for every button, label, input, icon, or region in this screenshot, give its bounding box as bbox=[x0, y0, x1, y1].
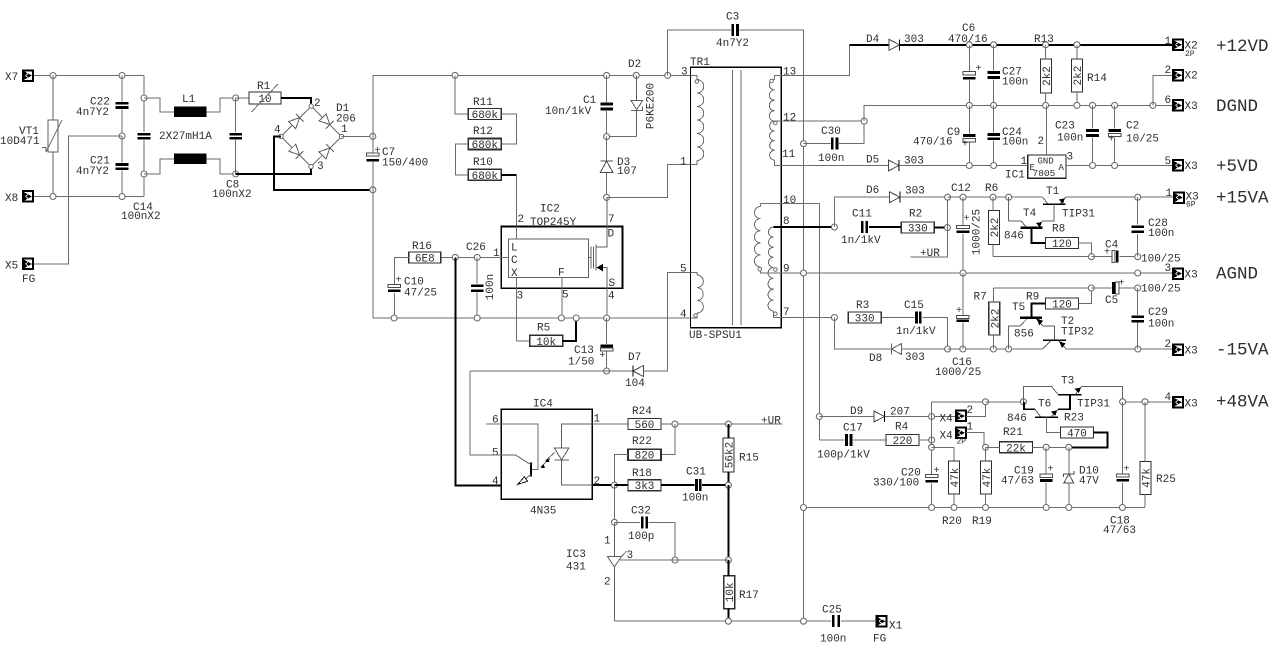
svg-text:100n: 100n bbox=[1057, 133, 1083, 145]
capacitor C18 bbox=[1116, 465, 1129, 482]
junction VT1 bottom bbox=[50, 194, 56, 200]
svg-text:C30: C30 bbox=[821, 126, 841, 138]
connector X4 pin1 bbox=[956, 428, 966, 439]
svg-text:2k2: 2k2 bbox=[1073, 66, 1085, 86]
optocoupler IC4 phototransistor bbox=[501, 455, 531, 485]
wire +UR stub bbox=[911, 228, 948, 257]
wire TR1 pin12 stub bbox=[775, 120, 782, 122]
bridge rectifier D1 edge 4-3 bbox=[281, 136, 311, 166]
wire L1 top out bbox=[207, 98, 236, 112]
wire R21 right bbox=[1033, 446, 1069, 448]
svg-text:4: 4 bbox=[608, 291, 615, 303]
svg-text:47V: 47V bbox=[1079, 476, 1099, 488]
wire TR1 pin10 line bbox=[761, 203, 820, 205]
wire C17 branch bbox=[819, 439, 844, 441]
resistor R7 bbox=[974, 292, 1003, 336]
wire L1 bottom out bbox=[207, 159, 236, 174]
svg-text:R2: R2 bbox=[909, 209, 922, 221]
ic IC1 pin2 lead bbox=[1046, 105, 1048, 155]
svg-text:100nX2: 100nX2 bbox=[212, 189, 252, 201]
wire TR1 pin9 stub a bbox=[761, 267, 782, 273]
junction R13 top bbox=[1043, 42, 1049, 48]
wire L pin vertical bbox=[515, 175, 517, 239]
transistor T5 base lead bbox=[1032, 304, 1046, 318]
capacitor C10 bbox=[388, 276, 401, 293]
capacitor C19 leads bbox=[1045, 447, 1047, 474]
junction C30 left bbox=[801, 141, 807, 147]
wire node1 to C7 bbox=[342, 135, 373, 137]
ic IC2 pin X lead bbox=[516, 278, 518, 341]
diode D1c bbox=[288, 144, 303, 159]
wire D7 to TR1 pin5 bbox=[643, 273, 690, 372]
ic IC2 pin2 lead bbox=[515, 226, 517, 238]
wire TR1 pin7 stub bbox=[774, 311, 782, 318]
wire FG branch bbox=[33, 136, 123, 264]
svg-text:47k: 47k bbox=[950, 467, 962, 487]
wire C20 bottom bbox=[931, 484, 933, 508]
wire C15 right bbox=[922, 318, 947, 350]
svg-text:2X27mH1A: 2X27mH1A bbox=[159, 131, 212, 143]
resistor R17 bbox=[724, 576, 759, 609]
capacitor C16 leads bbox=[962, 273, 964, 315]
optocoupler IC4 base internal bbox=[501, 424, 538, 470]
svg-text:107: 107 bbox=[617, 166, 637, 178]
svg-text:3: 3 bbox=[317, 161, 324, 173]
wire X4-1 down bbox=[966, 433, 984, 448]
junction R6 top bbox=[990, 194, 996, 200]
wire C17 to R4 bbox=[853, 439, 886, 441]
wire R8 right bbox=[1079, 243, 1092, 257]
svg-text:100nX2: 100nX2 bbox=[121, 211, 161, 223]
wire C10 bottom bbox=[393, 293, 395, 318]
svg-text:R6: R6 bbox=[985, 183, 998, 195]
svg-text:R15: R15 bbox=[739, 453, 759, 465]
wire primary bottom rail bbox=[373, 317, 691, 319]
transformer TR1 core lines bbox=[731, 70, 733, 325]
wire R1 to node2 bbox=[281, 98, 311, 106]
varistor VT1 bbox=[42, 76, 62, 197]
junction R20 gnd bbox=[951, 505, 957, 511]
junction C11 left bbox=[831, 224, 837, 230]
junction C6 top bbox=[966, 42, 972, 48]
connector X1 bbox=[876, 616, 886, 627]
junction C18 gnd bbox=[1119, 505, 1125, 511]
transformer TR1 dot pin4 bbox=[694, 314, 698, 318]
wire raw48 corner bbox=[931, 402, 933, 417]
svg-text:R24: R24 bbox=[632, 406, 652, 418]
capacitor C21 bbox=[116, 163, 129, 170]
capacitor C2 bbox=[1108, 129, 1121, 145]
wire IC4 pin2 node bbox=[592, 484, 614, 486]
svg-text:12: 12 bbox=[783, 113, 796, 125]
connector X3 pin3 bbox=[1173, 268, 1183, 279]
svg-text:3: 3 bbox=[627, 550, 634, 562]
junction R7 bottom bbox=[990, 346, 996, 352]
svg-text:C3: C3 bbox=[726, 12, 739, 24]
svg-text:1: 1 bbox=[341, 124, 348, 136]
resistor R18 bbox=[628, 468, 661, 493]
svg-text:470: 470 bbox=[1067, 428, 1087, 440]
svg-text:+: + bbox=[963, 214, 969, 225]
svg-text:X1: X1 bbox=[889, 621, 903, 633]
connector X3 pin1 bbox=[1174, 192, 1184, 203]
capacitor C22 leads bbox=[121, 76, 123, 102]
svg-text:47/25: 47/25 bbox=[404, 288, 437, 300]
svg-text:6E8: 6E8 bbox=[415, 253, 435, 265]
ic IC2 pin S lead bbox=[606, 288, 608, 318]
svg-text:1: 1 bbox=[493, 248, 500, 260]
wire C14 column upper bbox=[143, 76, 145, 133]
svg-text:L1: L1 bbox=[182, 94, 196, 106]
junction R15 top bbox=[725, 421, 731, 427]
wire -15 rail bbox=[948, 348, 1043, 350]
resistor R13 leads bbox=[1045, 45, 1047, 59]
capacitor C3 bbox=[731, 24, 738, 36]
junction C19 gnd bbox=[1043, 505, 1049, 511]
svg-text:X3: X3 bbox=[1185, 101, 1198, 113]
wire C31 right bbox=[702, 484, 728, 486]
svg-text:IC3: IC3 bbox=[566, 549, 586, 561]
svg-text:100/25: 100/25 bbox=[1141, 284, 1181, 296]
junction C32 left bbox=[611, 519, 617, 525]
ic U-IC2 inner box bbox=[508, 239, 588, 278]
capacitor C30 bbox=[831, 138, 838, 150]
resistor R22 bbox=[628, 436, 661, 463]
svg-text:330/100: 330/100 bbox=[873, 478, 919, 490]
svg-text:R18: R18 bbox=[632, 468, 652, 480]
svg-text:X3: X3 bbox=[1185, 161, 1198, 173]
wire D9 to X4-2 bbox=[884, 416, 956, 418]
svg-text:100n: 100n bbox=[1002, 77, 1028, 89]
svg-text:10: 10 bbox=[258, 94, 271, 106]
svg-text:TIP31: TIP31 bbox=[1077, 399, 1110, 411]
svg-text:1000/25: 1000/25 bbox=[935, 367, 981, 379]
svg-text:C23: C23 bbox=[1055, 121, 1075, 133]
junction C13 bottom bbox=[604, 368, 610, 374]
junction D2 top bbox=[633, 72, 639, 78]
junction C29 bottom bbox=[1135, 346, 1141, 352]
svg-text:100n: 100n bbox=[1148, 319, 1174, 331]
capacitor C25 bbox=[832, 615, 840, 627]
svg-text:470/16: 470/16 bbox=[948, 34, 988, 46]
svg-text:120: 120 bbox=[1052, 239, 1072, 251]
diode D1d bbox=[319, 144, 334, 159]
wire raw48 rail bbox=[932, 401, 986, 403]
svg-text:UB-SPSU1: UB-SPSU1 bbox=[689, 330, 742, 342]
junction AGND line A bbox=[801, 270, 807, 276]
junction C24 +5 bbox=[991, 163, 997, 169]
junction C23 DGND bbox=[1090, 102, 1096, 108]
svg-text:47k: 47k bbox=[982, 467, 994, 487]
zener diode D10 leads bbox=[1068, 447, 1070, 474]
junction C27 top bbox=[991, 42, 997, 48]
svg-text:846: 846 bbox=[1004, 231, 1024, 243]
mosfet inside IC2 bbox=[588, 197, 606, 288]
svg-text:220: 220 bbox=[893, 436, 913, 448]
junction R20 tap bbox=[929, 444, 935, 450]
ic U-IC2 outer box bbox=[501, 226, 622, 288]
svg-text:R9: R9 bbox=[1026, 292, 1039, 304]
svg-text:47/63: 47/63 bbox=[1103, 525, 1136, 537]
wire C8 to node3 bbox=[236, 167, 311, 174]
wire pin7 line bbox=[774, 317, 835, 319]
junction ref node right bbox=[725, 557, 731, 563]
svg-text:3: 3 bbox=[681, 67, 688, 79]
junction T4 collector bbox=[1006, 194, 1012, 200]
junction L1 bottom takeoff bbox=[141, 171, 147, 177]
svg-text:303: 303 bbox=[904, 34, 924, 46]
svg-text:5: 5 bbox=[492, 448, 499, 460]
wire C11 to R2 bbox=[869, 226, 901, 228]
wire R6 bottom run bbox=[993, 256, 1092, 258]
junction C12-C16 AGND bbox=[960, 270, 966, 276]
junction C1 top bbox=[604, 72, 610, 78]
wire TR1 pin11 stub bbox=[775, 160, 782, 166]
wire DGND rail bbox=[969, 104, 1173, 106]
svg-text:10/25: 10/25 bbox=[1126, 134, 1159, 146]
junction C19 top bbox=[1043, 444, 1049, 450]
capacitor C15 bbox=[915, 312, 922, 324]
svg-text:1: 1 bbox=[1166, 188, 1173, 200]
capacitor C31 bbox=[695, 479, 701, 491]
transformer TR1 dot pin9 side bbox=[774, 268, 778, 272]
junction D9-C20 column bbox=[929, 414, 935, 420]
junction C28 bottom bbox=[1135, 254, 1141, 260]
resistor R14 leads bbox=[1076, 45, 1078, 59]
svg-text:2: 2 bbox=[1165, 65, 1172, 77]
capacitor C11 bbox=[861, 221, 868, 233]
bridge rectifier D1 edge 3-1 bbox=[311, 136, 342, 166]
svg-text:R20: R20 bbox=[942, 516, 962, 528]
wire AGND rail bbox=[781, 272, 1173, 274]
svg-text:9: 9 bbox=[783, 264, 790, 276]
svg-text:C4: C4 bbox=[1105, 240, 1119, 252]
svg-text:R25: R25 bbox=[1156, 474, 1176, 486]
wire R2 right bbox=[935, 227, 948, 229]
capacitor C9 leads bbox=[968, 105, 970, 133]
resistor R2 bbox=[901, 209, 934, 236]
svg-text:1n/1kV: 1n/1kV bbox=[841, 235, 881, 247]
svg-text:C26: C26 bbox=[466, 242, 486, 254]
transformer TR1 secondary winding 12-11 bbox=[770, 121, 775, 160]
junction L1 top takeoff bbox=[141, 95, 147, 101]
transformer TR1 box bbox=[691, 67, 782, 327]
wire X4-2 up bbox=[966, 402, 986, 417]
capacitor C22 bbox=[116, 102, 129, 109]
svg-text:100n: 100n bbox=[485, 274, 497, 300]
svg-text:431: 431 bbox=[566, 562, 586, 574]
transistor T6 846 bbox=[1024, 395, 1070, 417]
capacitor C8 leads bbox=[235, 98, 237, 132]
wire IC4 pin4 to control bbox=[455, 257, 501, 485]
svg-text:E: E bbox=[1030, 163, 1035, 173]
capacitor C4 bbox=[1104, 248, 1119, 263]
svg-text:FG: FG bbox=[873, 634, 886, 646]
wire line A pin13 cross bbox=[781, 45, 849, 76]
junction F pin on rail bbox=[558, 315, 564, 321]
capacitor C7 bbox=[367, 146, 381, 162]
junction C26 top bbox=[474, 254, 480, 260]
svg-text:4n7Y2: 4n7Y2 bbox=[716, 38, 749, 50]
svg-text:2: 2 bbox=[518, 214, 525, 226]
connector X4 pin2 bbox=[956, 411, 966, 422]
transformer TR1 secondary winding 8-9 bbox=[768, 227, 773, 268]
junction AGND right bbox=[1135, 270, 1141, 276]
wire L1 bottom in bbox=[144, 159, 174, 174]
junction R9-C5-R7 bbox=[1088, 285, 1094, 291]
svg-text:P6KE200: P6KE200 bbox=[646, 83, 658, 129]
wire R16 left to C10 bbox=[394, 257, 409, 284]
junction C16 bottom bbox=[960, 346, 966, 352]
junction X4-1 R21 bbox=[983, 444, 989, 450]
resistor R11 bbox=[468, 97, 501, 122]
wire +15 rail bbox=[948, 196, 1043, 198]
junction R5 on rail bbox=[573, 315, 579, 321]
junction X2 pin2 takeoff bbox=[1150, 102, 1156, 108]
junction R14 DGND bbox=[1074, 102, 1080, 108]
wire D6 to rail bbox=[900, 196, 948, 198]
svg-text:4: 4 bbox=[274, 125, 281, 137]
wire R18 to C31 bbox=[661, 484, 695, 486]
svg-text:47k: 47k bbox=[1141, 468, 1153, 488]
junction C31-R15 bbox=[725, 482, 731, 488]
capacitor C26 leads bbox=[476, 257, 478, 283]
wire IC1 out bbox=[1066, 165, 1173, 167]
svg-text:+: + bbox=[956, 306, 962, 317]
svg-text:R12: R12 bbox=[473, 126, 493, 138]
wire +48 out rail bbox=[1123, 401, 1173, 403]
wire C30 right bbox=[839, 121, 864, 144]
optocoupler IC4 led bbox=[554, 424, 592, 485]
svg-text:1: 1 bbox=[1021, 156, 1028, 168]
capacitor C23 leads bbox=[1092, 105, 1094, 128]
svg-text:C32: C32 bbox=[631, 506, 651, 518]
svg-text:4: 4 bbox=[680, 309, 687, 321]
transistor T6 base lead bbox=[1047, 417, 1061, 432]
svg-text:D8: D8 bbox=[869, 353, 882, 365]
wire +12 rail bbox=[849, 44, 1173, 46]
junction C7 plus bbox=[370, 133, 376, 139]
bridge rectifier D1 edge 2-1 bbox=[311, 106, 341, 136]
svg-text:10n/1kV: 10n/1kV bbox=[545, 106, 592, 118]
connector X5 bbox=[23, 259, 33, 270]
resistor R17 leads bbox=[727, 560, 729, 576]
capacitor C8 bbox=[229, 133, 242, 140]
svg-text:7: 7 bbox=[608, 214, 615, 226]
shunt regulator IC3 431 bbox=[607, 522, 626, 621]
svg-text:X8: X8 bbox=[5, 193, 18, 205]
svg-text:+: + bbox=[374, 146, 380, 157]
junction R16 right bbox=[452, 254, 458, 260]
capacitor C17 bbox=[845, 434, 852, 446]
bridge node 4 bbox=[279, 134, 283, 138]
transformer TR1 dot pin10 side bbox=[758, 267, 762, 271]
capacitor C1 leads bbox=[606, 75, 608, 101]
svg-text:1: 1 bbox=[680, 157, 687, 169]
diode D9 bbox=[874, 411, 885, 422]
svg-text:R11: R11 bbox=[473, 97, 493, 109]
junction R2 +UR tap bbox=[944, 225, 950, 231]
wire pin12 to DGND bbox=[864, 105, 969, 121]
optocoupler IC4 box bbox=[501, 409, 592, 499]
svg-text:R8: R8 bbox=[1052, 224, 1065, 236]
svg-text:C31: C31 bbox=[686, 467, 706, 479]
junction R13-IC1 DGND bbox=[1043, 102, 1049, 108]
svg-text:+UR: +UR bbox=[920, 248, 940, 260]
svg-text:R23: R23 bbox=[1064, 413, 1084, 425]
wire C5 left bbox=[1091, 287, 1111, 289]
svg-text:R14: R14 bbox=[1087, 73, 1107, 85]
svg-text:R4: R4 bbox=[895, 422, 909, 434]
transformer TR1 dot pin13 bbox=[770, 79, 774, 83]
wire TR1 pin8 stub bbox=[774, 226, 782, 228]
wire ref wire bbox=[620, 559, 728, 561]
connector X3 pin2 bbox=[1173, 344, 1183, 355]
wire R9 right bbox=[1079, 288, 1092, 304]
wire C14 column lower bbox=[143, 140, 145, 197]
svg-text:T3: T3 bbox=[1061, 376, 1074, 388]
junction C12 top bbox=[960, 194, 966, 200]
svg-text:330: 330 bbox=[855, 314, 875, 326]
svg-text:TIP31: TIP31 bbox=[1062, 209, 1095, 221]
transistor T2 TIP32 bbox=[1043, 340, 1067, 349]
wire C3 left bbox=[668, 30, 731, 75]
svg-text:4N35: 4N35 bbox=[530, 506, 556, 518]
capacitor C29 bbox=[1131, 315, 1144, 322]
diode D5 bbox=[888, 160, 899, 171]
svg-text:1: 1 bbox=[1165, 36, 1172, 48]
svg-text:TIP32: TIP32 bbox=[1061, 327, 1094, 339]
capacitor C6 leads bbox=[968, 45, 970, 72]
svg-text:C12: C12 bbox=[951, 183, 971, 195]
svg-text:2P: 2P bbox=[1185, 50, 1195, 59]
diode D6 bbox=[889, 192, 900, 203]
svg-text:1: 1 bbox=[604, 536, 611, 548]
capacitor C2 leads bbox=[1114, 105, 1116, 128]
wire C pin node bbox=[441, 256, 509, 258]
junction C29 top bbox=[1135, 285, 1141, 291]
wire C4 right bbox=[1119, 256, 1137, 258]
connector X2 pin2 bbox=[1173, 70, 1183, 81]
resistor R9 bbox=[1026, 292, 1079, 312]
svg-text:47/63: 47/63 bbox=[1001, 476, 1034, 488]
resistor R13 bbox=[1034, 34, 1054, 93]
transformer TR1 dot pin3 bbox=[695, 80, 699, 84]
connector X2 pin1 bbox=[1173, 40, 1183, 51]
wire D2 bottom bbox=[607, 136, 637, 138]
junction C21 mid bbox=[119, 133, 125, 139]
svg-text:2P: 2P bbox=[957, 438, 967, 447]
svg-text:+: + bbox=[975, 64, 981, 75]
svg-text:AGND: AGND bbox=[1216, 265, 1258, 285]
svg-text:T1: T1 bbox=[1046, 186, 1060, 198]
svg-text:10D471: 10D471 bbox=[0, 136, 40, 148]
svg-text:C25: C25 bbox=[822, 605, 842, 617]
resistor R6 leads bbox=[992, 197, 994, 210]
wire bias to D7 bbox=[607, 370, 633, 372]
svg-text:13: 13 bbox=[783, 67, 796, 79]
svg-text:470/16: 470/16 bbox=[913, 137, 953, 149]
svg-text:R21: R21 bbox=[1003, 427, 1023, 439]
wire X2 pin2 branch bbox=[1153, 75, 1173, 105]
svg-text:856: 856 bbox=[1014, 329, 1034, 341]
diode D4 bbox=[889, 39, 900, 50]
capacitor C24 leads bbox=[993, 105, 995, 132]
wire TR1 pin4 stub bbox=[691, 313, 698, 318]
svg-text:C15: C15 bbox=[904, 300, 924, 312]
svg-text:T4: T4 bbox=[1023, 208, 1037, 220]
svg-text:7805: 7805 bbox=[1033, 168, 1056, 179]
